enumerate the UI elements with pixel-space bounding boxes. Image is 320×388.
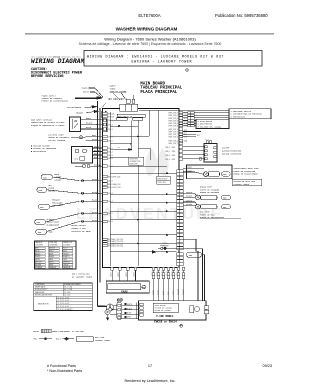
svg-text:EAAS: EAAS xyxy=(121,291,128,294)
svg-text:BLANQUEADOR: BLANQUEADOR xyxy=(47,224,60,227)
belt note xyxy=(72,273,93,279)
svg-text:CN11 CN12: CN11 CN12 xyxy=(157,182,166,184)
wire power supply leads xyxy=(75,88,103,113)
svg-text:BLACK: BLACK xyxy=(82,87,89,90)
svg-text:BLACK: BLACK xyxy=(92,138,99,141)
tub light oval xyxy=(187,252,202,257)
svg-text:RAB: RAB xyxy=(49,231,53,234)
node cluster labels mid-left xyxy=(103,175,108,188)
svg-text:BLACK: BLACK xyxy=(186,166,193,169)
svg-text:DOOR LOCK PTC: DOOR LOCK PTC xyxy=(35,289,48,291)
svg-text:MOTEUR DE LAVAGE: MOTEUR DE LAVAGE xyxy=(155,307,172,310)
svg-text:BLUE: BLUE xyxy=(163,291,165,295)
svg-text:BLUE: BLUE xyxy=(86,126,92,129)
svg-text:CN4-4: CN4-4 xyxy=(108,158,113,160)
svg-text:BLACK: BLACK xyxy=(92,219,99,222)
svg-text:LAVADO: LAVADO xyxy=(55,178,63,181)
wire recirc pump leads xyxy=(183,202,198,206)
svg-text:COLORES: COLORES xyxy=(63,244,70,246)
motor connector capsule xyxy=(117,302,122,320)
svg-text:17: 17 xyxy=(148,364,152,368)
wiring diagram logo block xyxy=(31,55,85,79)
svg-text:EWF_CN7_3: EWF_CN7_3 xyxy=(169,137,179,139)
wire red / black to board xyxy=(86,137,103,141)
bottom pin vertical labels xyxy=(109,271,179,276)
wire drain pump leads xyxy=(183,194,198,198)
wire bleach valve xyxy=(46,212,103,222)
watermark leadventure xyxy=(76,148,224,223)
svg-text:COMPONENT: COMPONENT xyxy=(35,284,45,286)
svg-text:RED: RED xyxy=(172,147,176,149)
ground mark under motor box xyxy=(180,324,183,327)
concentrate wash pump M2 xyxy=(203,167,261,186)
svg-text:COLOURS: COLOURS xyxy=(35,244,42,246)
svg-text:FUENTE DE ALIMENTACIÓN: FUENTE DE ALIMENTACIÓN xyxy=(42,100,69,103)
svg-text:CN5-2: CN5-2 xyxy=(108,181,113,183)
wire earth leader xyxy=(102,93,120,108)
svg-text:EWF_CN7_1: EWF_CN7_1 xyxy=(169,131,179,133)
svg-text:Publication No: 5995736880: Publication No: 5995736880 xyxy=(215,13,268,18)
note active legend xyxy=(33,329,84,333)
svg-text:EWF_CN7_0: EWF_CN7_0 xyxy=(169,129,179,131)
svg-text:BLACK: BLACK xyxy=(92,178,99,181)
legend symbols xyxy=(33,336,111,342)
svg-text:MAIN RELAY CN: MAIN RELAY CN xyxy=(118,115,132,118)
svg-text:GREEN: GREEN xyxy=(36,265,41,267)
svg-text:BLACK: BLACK xyxy=(186,169,193,172)
svg-text:EWF_CN7_4: EWF_CN7_4 xyxy=(169,140,179,142)
interior junction dots xyxy=(118,125,168,253)
svg-text:EW14+: EW14+ xyxy=(163,243,168,245)
svg-text:T1 T3 1.5 - 6.0 Ω: T1 T3 1.5 - 6.0 Ω xyxy=(58,300,70,302)
svg-text:CN4-2: CN4-2 xyxy=(108,151,113,153)
svg-text:RED: RED xyxy=(172,159,176,161)
oval BLEACH valve xyxy=(35,218,60,227)
inline connectors on drop wires xyxy=(152,273,185,279)
svg-text:WASHER WIRING DIAGRAM: WASHER WIRING DIAGRAM xyxy=(116,26,178,31)
wire upper aux run xyxy=(158,239,202,248)
svg-text:EWP_CN9_2: EWP_CN9_2 xyxy=(169,115,179,117)
svg-text:CN8_3: CN8_3 xyxy=(165,155,170,157)
svg-text:EWP_CN9_4: EWP_CN9_4 xyxy=(169,120,179,122)
svg-text:Rendered by LeadVenture, Inc.: Rendered by LeadVenture, Inc. xyxy=(124,379,175,383)
svg-text:BLUE: BLUE xyxy=(36,251,40,253)
svg-text:CN8_2: CN8_2 xyxy=(165,151,170,153)
svg-text:WHITE: WHITE xyxy=(127,304,132,306)
svg-text:BLACK: BLACK xyxy=(186,203,193,206)
svg-text:T1 T2 1.5 - 6.0 Ω: T1 T2 1.5 - 6.0 Ω xyxy=(58,297,70,299)
svg-text:WHITE: WHITE xyxy=(36,256,41,258)
lid open light DS1 xyxy=(48,133,86,142)
ground mark xyxy=(199,158,202,161)
svg-text:EWF_CN7_2: EWF_CN7_2 xyxy=(169,134,179,136)
svg-text:LAUNDRY TOWER: LAUNDRY TOWER xyxy=(233,183,249,186)
ladder lower extension xyxy=(177,253,183,266)
board left edge connector pins xyxy=(103,112,108,246)
svg-text:WHEN COMPONENT IS ACTIVE: WHEN COMPONENT IS ACTIVE xyxy=(52,330,84,333)
svg-text:DOOR SAFETY INTERLOCK: DOOR SAFETY INTERLOCK xyxy=(31,118,53,121)
svg-text:BLACK: BLACK xyxy=(92,211,99,214)
svg-text:RED: RED xyxy=(172,151,176,153)
svg-text:3 PRESOSTATO: 3 PRESOSTATO xyxy=(231,116,246,119)
wire concentrate pump leads xyxy=(183,165,232,179)
svg-text:BLUE: BLUE xyxy=(127,313,131,315)
wire motor leads xyxy=(110,303,139,319)
svg-text:WIRING DIAGRAM : EWX14VD1 - LU: WIRING DIAGRAM : EWX14VD1 - LUXCARE MODE… xyxy=(87,56,224,60)
right edge connector ladder xyxy=(177,170,183,250)
svg-text:EWP_CN9_5: EWP_CN9_5 xyxy=(169,123,179,125)
svg-text:BLACK: BLACK xyxy=(86,122,93,125)
svg-text:VERROUILLAGE DE SÉCURITÉ DE PO: VERROUILLAGE DE SÉCURITÉ DE PORTE xyxy=(31,121,64,124)
svg-text:BLOQUEO DE SEGURIDAD DE LA PUE: BLOQUEO DE SEGURIDAD DE LA PUERTA xyxy=(31,124,65,127)
svg-text:VÁLVULAS DE AGUA: VÁLVULAS DE AGUA xyxy=(71,230,91,233)
interior mini table xyxy=(157,176,171,184)
power supply label xyxy=(42,94,69,102)
interior short traces upper xyxy=(110,121,149,158)
svg-text:ELTE7600A: ELTE7600A xyxy=(138,13,160,18)
oval PREWASH valve xyxy=(38,199,63,210)
dispenser connector J2 xyxy=(204,139,242,162)
flow meter B2 xyxy=(196,119,229,128)
svg-text:ORANGE: ORANGE xyxy=(76,111,84,114)
svg-text:EWP_CN9_3: EWP_CN9_3 xyxy=(169,118,179,120)
wire hot valve xyxy=(47,190,103,194)
heating element HE1 xyxy=(31,144,93,163)
svg-text:T4 T5 1.5 - 6.0 Ω: T4 T5 1.5 - 6.0 Ω xyxy=(58,306,70,308)
svg-text:BLACK: BLACK xyxy=(127,307,133,310)
board bottom pins xyxy=(111,267,185,270)
svg-text:LUZ DEL TAPADOR: LUZ DEL TAPADOR xyxy=(48,139,66,142)
svg-text:EWC1B or EWC14: EWC1B or EWC14 xyxy=(154,321,177,324)
bus junction dots xyxy=(97,123,101,214)
connector inline col xyxy=(188,112,195,127)
svg-text:BRUN: BRUN xyxy=(49,262,53,264)
svg-text:VERT: VERT xyxy=(49,265,53,267)
svg-text:WHITE: WHITE xyxy=(186,200,193,203)
drain pump label xyxy=(200,186,220,194)
svg-text:CN4-3: CN4-3 xyxy=(108,155,113,157)
wire grey/blue/red heater xyxy=(93,148,103,158)
svg-text:BOMBA DE DESAGÜE: BOMBA DE DESAGÜE xyxy=(200,191,220,194)
water valves label xyxy=(71,224,91,233)
line filter EAAS xyxy=(106,281,149,294)
svg-text:GRIS: GRIS xyxy=(49,259,53,261)
inline glyphs row 248 xyxy=(161,247,167,250)
svg-text:BROWN: BROWN xyxy=(178,288,180,295)
svg-text:WASH MOTOR: WASH MOTOR xyxy=(155,304,167,307)
rotated wire labels to motor xyxy=(152,288,185,295)
colour code table xyxy=(35,241,77,269)
drain pump M3 xyxy=(195,195,230,200)
svg-text:WIRING DIAGRAM: WIRING DIAGRAM xyxy=(31,58,85,65)
wire top run to pressure switch xyxy=(139,110,229,126)
board interior pin names xyxy=(108,112,123,247)
svg-text:GRN: GRN xyxy=(184,140,188,142)
svg-text:CN3-2: CN3-2 xyxy=(108,140,113,142)
svg-text:NTC: NTC xyxy=(197,135,201,137)
svg-text:MOTOR DE LAVADO: MOTOR DE LAVADO xyxy=(155,309,171,312)
svg-text:BELT: BELT xyxy=(56,338,62,341)
svg-text:WHITE: WHITE xyxy=(83,91,90,94)
svg-text:0.9 - 1.5 KΩ: 0.9 - 1.5 KΩ xyxy=(64,289,73,291)
svg-text:NOTE:: NOTE: xyxy=(33,330,40,333)
wire wash valve xyxy=(53,177,103,182)
svg-text:ROUGE: ROUGE xyxy=(49,248,55,250)
svg-text:CN5-5: CN5-5 xyxy=(108,213,113,215)
svg-text:GREEN: GREEN xyxy=(183,288,185,295)
svg-text:T6 T7 15 - 30 KΩ NTC: T6 T7 15 - 30 KΩ NTC xyxy=(58,309,74,311)
thermostat contacts xyxy=(75,165,103,168)
svg-text:T2 T3 1.5 - 6.0 Ω: T2 T3 1.5 - 6.0 Ω xyxy=(58,303,70,305)
svg-text:EWF_CN7_5: EWF_CN7_5 xyxy=(169,143,179,145)
svg-text:DOSING DISPENSER: DOSING DISPENSER xyxy=(222,152,242,155)
svg-text:GRIS: GRIS xyxy=(63,259,67,261)
svg-text:BLACK: BLACK xyxy=(92,199,99,202)
left vertical bus wires xyxy=(98,101,106,306)
wash motor box U2 xyxy=(139,301,209,324)
wire board to motor box xyxy=(153,270,183,300)
header xyxy=(25,13,274,46)
svg-text:# Functional Parts: # Functional Parts xyxy=(47,364,76,368)
svg-text:* Non-Illustrated Parts: * Non-Illustrated Parts xyxy=(47,369,82,373)
svg-text:EWX20NA - LAUNDRY TOWER: EWX20NA - LAUNDRY TOWER xyxy=(132,61,193,65)
svg-text:BLACK: BLACK xyxy=(186,195,193,198)
svg-text:BEFORE SERVICING: BEFORE SERVICING xyxy=(31,75,64,79)
oval WASH valve xyxy=(41,173,62,182)
arrow marker interior xyxy=(148,251,157,254)
svg-text:EWX GROUP: EWX GROUP xyxy=(157,178,167,180)
svg-text:BOMBA DE CONCENTRADO: BOMBA DE CONCENTRADO xyxy=(234,173,259,176)
main board title xyxy=(140,82,182,95)
svg-text:EWD/CN8: EWD/CN8 xyxy=(130,163,138,165)
board right edge pins with labels xyxy=(179,112,183,160)
model info box xyxy=(84,51,262,67)
svg-text:EWD3-AQ_CN1 2.54: EWD3-AQ_CN1 2.54 xyxy=(108,238,123,241)
svg-text:CN8_4: CN8_4 xyxy=(165,159,170,161)
svg-text:EWP_CN9_1: EWP_CN9_1 xyxy=(169,113,179,115)
door safety interlock S1 xyxy=(31,117,81,132)
svg-text:EWD1-B: EWD1-B xyxy=(108,116,114,118)
node EARTH label xyxy=(110,85,128,94)
oval HOT valve xyxy=(37,184,58,193)
svg-text:14 - 16 Ω: 14 - 16 Ω xyxy=(64,294,71,296)
svg-text:GREY: GREY xyxy=(86,117,92,120)
interior component strip xyxy=(116,114,145,120)
svg-text:CN3-1: CN3-1 xyxy=(108,136,113,138)
svg-text:BLEU: BLEU xyxy=(49,251,53,253)
main board U1 outline xyxy=(103,108,180,267)
svg-text:BROWN: BROWN xyxy=(36,262,42,264)
svg-text:V-INC MODEL:: V-INC MODEL: xyxy=(156,315,175,318)
wire grey xyxy=(81,120,103,129)
pressure switch B1 xyxy=(229,109,271,119)
recirculation pump M4 xyxy=(195,204,241,219)
svg-text:GREY: GREY xyxy=(36,259,40,261)
svg-text:VERDE: VERDE xyxy=(63,265,68,267)
svg-text:■ RESISTENCIA: ■ RESISTENCIA xyxy=(31,150,47,153)
svg-text:PLACA PRINCIPAL: PLACA PRINCIPAL xyxy=(140,91,177,95)
wire cn7 stubs xyxy=(183,132,201,137)
interior label box xyxy=(129,157,144,165)
svg-text:YELLOW/GREEN: YELLOW/GREEN xyxy=(67,106,82,109)
svg-text:LAUNDRY TOWER: LAUNDRY TOWER xyxy=(95,339,111,342)
svg-text:Schéma de câblage - Laveuse de: Schéma de câblage - Laveuse de série 760… xyxy=(79,42,222,46)
svg-text:EW20+: EW20+ xyxy=(163,245,168,247)
footer xyxy=(47,364,272,383)
wire rab valve xyxy=(47,220,103,231)
svg-text:AT LAUNDRY TOWER: AT LAUNDRY TOWER xyxy=(72,276,93,279)
resistor 27ohm marker xyxy=(118,146,133,151)
svg-text:0.9 - 1.1 KΩ: 0.9 - 1.1 KΩ xyxy=(64,287,73,289)
svg-text:CN8_1: CN8_1 xyxy=(165,147,170,149)
active markers on motor leads xyxy=(125,303,127,318)
svg-text:TRU: TRU xyxy=(33,338,37,341)
wire prewash valve xyxy=(50,200,103,207)
board interior rails and traces xyxy=(110,111,177,267)
svg-text:WHITE: WHITE xyxy=(158,290,160,295)
ground mark under model box xyxy=(186,69,189,72)
wire board to EAAB xyxy=(112,270,135,281)
svg-text:COULEURS: COULEURS xyxy=(49,244,57,246)
svg-text:EWD1-A: EWD1-A xyxy=(108,112,115,115)
power entry terminals xyxy=(101,111,106,118)
resistance table xyxy=(34,283,93,311)
svg-text:09/23: 09/23 xyxy=(262,364,272,368)
svg-text:EWP_CN9_6: EWP_CN9_6 xyxy=(169,126,179,128)
svg-text:Wiring Diagram - 7600 Series W: Wiring Diagram - 7600 Series Washer (A10… xyxy=(104,36,196,41)
svg-text:CN5-6: CN5-6 xyxy=(108,221,113,223)
svg-text:3 MEDIDOR DEL CAUDAL: 3 MEDIDOR DEL CAUDAL xyxy=(198,125,223,128)
svg-text:GREY: GREY xyxy=(94,145,100,148)
connector CN-top blocks above board xyxy=(120,99,138,111)
svg-text:14 - 16 Ω: 14 - 16 Ω xyxy=(64,292,71,294)
svg-text:RED: RED xyxy=(172,155,176,157)
svg-text:CN2-3: CN2-3 xyxy=(108,129,113,131)
wire twisted pair from power xyxy=(108,93,134,100)
oval RAB valve xyxy=(36,229,54,234)
svg-text:CODE DES: CODE DES xyxy=(49,242,57,244)
svg-text:NEGRO: NEGRO xyxy=(63,253,69,255)
wire loop to motor right xyxy=(196,239,209,312)
motor M1 symbol xyxy=(98,298,123,320)
interior verticals extra xyxy=(110,110,149,149)
svg-text:27: 27 xyxy=(118,146,121,149)
wire on/off dispenser leads xyxy=(183,147,204,159)
